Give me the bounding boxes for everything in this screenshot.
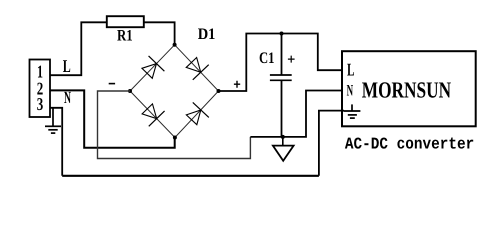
junction dot C1 bottom node: [281, 135, 285, 139]
wire ground rail up to converter earth pin: [319, 111, 344, 176]
svg-text:AC-DC converter: AC-DC converter: [345, 135, 474, 154]
svg-text:3: 3: [37, 94, 44, 114]
diode D1b (top-right arm): [183, 55, 208, 80]
junction dot bridge bottom vertex: [173, 136, 177, 140]
diode D1d (bottom-right arm): [184, 102, 209, 127]
svg-text:R1: R1: [117, 27, 133, 44]
svg-text:MORNSUN: MORNSUN: [362, 77, 452, 102]
svg-text:C1: C1: [259, 50, 275, 67]
wire minus rail to converter N pin: [250, 91, 342, 137]
wire bridge minus output down to minus rail: [98, 91, 251, 159]
junction dot C1 top on plus rail: [280, 32, 284, 36]
diode D1c (bottom-left arm): [139, 101, 164, 126]
bridge rectifier D1 diamond outline: [130, 45, 219, 138]
svg-text:L: L: [347, 59, 355, 79]
junction dot bridge right vertex: [217, 89, 221, 93]
wire pin3 to ground rail: [50, 108, 62, 176]
svg-text:D1: D1: [198, 26, 216, 43]
junction dot bridge left vertex: [128, 89, 132, 93]
capacitor C1 plates: [270, 74, 292, 76]
earth ground symbol at connector pin 3: [45, 108, 61, 133]
svg-text:N: N: [347, 82, 354, 99]
plus label at bridge DC+ output: [234, 81, 240, 88]
wire resistor R1 to bridge top vertex: [144, 22, 175, 45]
converter U1 box (MORNSUN): [342, 51, 476, 126]
wire pin1 to resistor R1 (L net): [50, 22, 107, 75]
minus label at bridge DC- output: [109, 83, 115, 85]
capacitor C1 polarity plus: [288, 56, 295, 63]
capacitor C1 bottom lead: [281, 80, 283, 137]
junction dot bridge top vertex: [173, 43, 177, 47]
svg-text:L: L: [63, 56, 71, 76]
resistor R1: [107, 16, 144, 27]
capacitor C1 top lead: [281, 34, 283, 76]
wire bridge plus output to converter L pin: [219, 34, 343, 92]
wire pin2 to bridge bottom vertex (N net): [50, 90, 175, 147]
diode D1a (top-left arm): [139, 56, 164, 81]
ground arrow symbol below C1: [282, 137, 284, 146]
earth ground symbol inside converter: [344, 104, 361, 118]
connector J1 box: [30, 60, 51, 118]
ground rail (bottom): [62, 175, 319, 177]
